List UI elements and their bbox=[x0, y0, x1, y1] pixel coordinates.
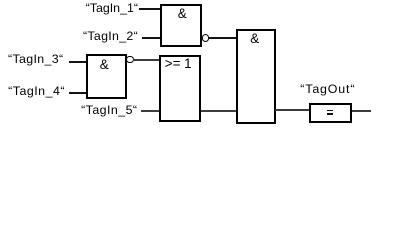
label = of EQ1 bbox=[327, 110, 333, 112]
and-gate A2 box bbox=[86, 54, 127, 98]
node TagIn_5 bbox=[81, 104, 137, 116]
node TagIn_3 bbox=[8, 53, 64, 65]
label >=1 of O1 bbox=[165, 57, 192, 70]
node TagIn_1 bbox=[86, 2, 138, 14]
negation circle on A1 output bbox=[202, 34, 209, 41]
node TagIn_4 bbox=[8, 85, 65, 97]
negation circle on A2 output bbox=[126, 56, 133, 63]
wire O1 output to A3 input 2 bbox=[201, 110, 237, 112]
and-gate A3 box bbox=[236, 29, 277, 124]
wire TagIn_1 to A1 input 1 bbox=[139, 8, 160, 10]
node TagIn_2 bbox=[83, 30, 138, 42]
or-gate O1 box bbox=[159, 55, 201, 123]
wire TagIn_3 to A2 input 1 bbox=[69, 61, 87, 63]
wire EQ1 output stub bbox=[352, 110, 372, 112]
label & of A2 bbox=[100, 58, 109, 71]
wire A2 output to O1 input 1 bbox=[133, 59, 160, 61]
wire A1 output to A3 input 1 bbox=[208, 37, 236, 39]
wire TagIn_2 to A1 input 2 bbox=[142, 37, 160, 39]
coil EQ1 assignment box bbox=[309, 103, 352, 123]
label & of A1 bbox=[178, 7, 187, 20]
wire TagIn_5 to O1 input 2 bbox=[141, 110, 160, 112]
node TagOut bbox=[300, 83, 355, 95]
label & of A3 bbox=[250, 32, 259, 45]
wire A3 output to assignment coil bbox=[275, 109, 310, 111]
and-gate A1 box bbox=[160, 4, 202, 47]
wire TagIn_4 to A2 input 2 bbox=[69, 92, 87, 94]
